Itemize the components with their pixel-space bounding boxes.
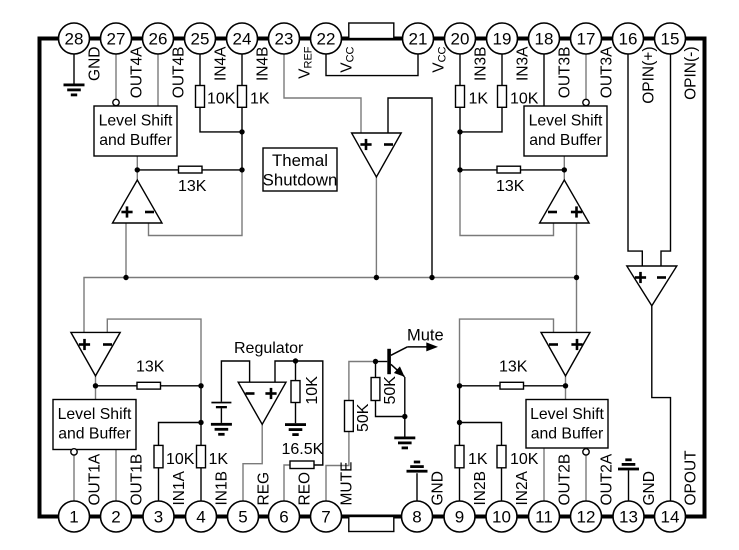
svg-text:27: 27 <box>107 30 126 49</box>
pin 25 circle <box>185 23 216 54</box>
svg-text:6: 6 <box>279 508 288 527</box>
svg-text:18: 18 <box>535 30 554 49</box>
wire R-10K to pin3 <box>158 468 160 501</box>
bubble pin17 OUT3A <box>583 99 589 105</box>
svg-text:19: 19 <box>493 30 512 49</box>
bubble pin12 OUT2A <box>583 449 589 455</box>
wire R-10K to pin10 <box>501 468 503 501</box>
svg-text:IN3A: IN3A <box>515 46 532 81</box>
ground regulator capacitor <box>211 423 232 426</box>
wire pin25 to R-10K <box>199 54 201 86</box>
svg-text:Shutdown: Shutdown <box>263 171 338 190</box>
level shift and buffer box U1 <box>53 400 136 450</box>
level shift and buffer box U3 <box>524 106 607 156</box>
pin 26 circle <box>143 23 174 54</box>
wire pin13 ground <box>628 470 630 501</box>
svg-text:IN3B: IN3B <box>473 47 490 81</box>
svg-text:10K: 10K <box>510 451 539 468</box>
resistor 10K (pin10 IN2A) <box>497 445 506 467</box>
op-amp U1 (channel 1) <box>71 332 120 376</box>
wire pin24 to R-1K <box>241 54 243 86</box>
svg-text:Level Shift: Level Shift <box>529 113 603 130</box>
svg-text:25: 25 <box>191 30 210 49</box>
wire node A4 to node B4 through 13K <box>137 169 242 171</box>
resistor 13K feedback U4 <box>179 166 203 173</box>
resistor 10K (pin3 IN1A) <box>154 445 163 467</box>
wire U7 output to pin14 OPOUT <box>652 306 671 501</box>
op-amp U2 (channel 2) <box>541 332 590 376</box>
svg-text:9: 9 <box>455 508 464 527</box>
wire node B1 down <box>200 386 202 446</box>
svg-text:13K: 13K <box>136 359 165 376</box>
svg-text:50K: 50K <box>382 376 399 405</box>
pin 16 circle <box>613 23 644 54</box>
mute arrow <box>407 346 427 348</box>
pin 10 circle <box>486 501 517 532</box>
wire node B3 to node A3 through 13K <box>460 169 564 171</box>
svg-text:OUT2A: OUT2A <box>599 453 616 505</box>
svg-text:28: 28 <box>65 30 84 49</box>
pin 24 circle <box>227 23 258 54</box>
resistor 16.5K regulator output <box>290 461 314 469</box>
bubble pin27 OUT4A <box>113 99 119 105</box>
wire U3 + input / U2 + input to VREF bus <box>576 223 578 332</box>
pin 3 circle <box>143 501 174 532</box>
svg-text:1K: 1K <box>250 91 270 108</box>
wire U4 + input to VREF bus <box>125 223 127 278</box>
wire Q1 emitter to ground <box>404 377 406 437</box>
svg-text:IN2B: IN2B <box>472 471 489 505</box>
wire U6 + input node <box>275 361 323 465</box>
pin 12 circle <box>571 501 602 532</box>
svg-text:IN1B: IN1B <box>214 471 231 505</box>
svg-text:22: 22 <box>317 30 336 49</box>
svg-text:OUT1A: OUT1A <box>87 453 104 505</box>
pin 7 circle <box>311 501 342 532</box>
wire Vcc pin22 to pin21 <box>326 54 418 76</box>
svg-text:24: 24 <box>233 30 252 49</box>
resistor 13K feedback U3 <box>497 166 521 173</box>
wire buffer1 bubble to pin1 <box>73 455 75 501</box>
junction dot junction regulator + node <box>293 358 298 363</box>
svg-text:Regulator: Regulator <box>234 340 304 357</box>
svg-text:REG: REG <box>256 472 273 506</box>
wire pin28 to ground <box>73 54 75 84</box>
wire junction to R-10K <box>159 423 202 446</box>
resistor 10K (pin19 IN3A) <box>498 86 507 108</box>
svg-text:21: 21 <box>409 30 428 49</box>
IC package outline <box>40 39 705 517</box>
svg-text:13K: 13K <box>178 178 207 195</box>
wire pin15 OPIN(-) to U7 <box>661 54 671 266</box>
junction dot bus junction U4+ <box>123 275 128 280</box>
wire buffer1 to pin2 <box>115 448 117 501</box>
pin 6 circle <box>269 501 300 532</box>
wire R-1K to pin4 <box>200 468 202 501</box>
svg-text:11: 11 <box>535 508 553 527</box>
package tab bottom <box>349 517 394 532</box>
resistor 10K (pin25 IN4A) <box>196 86 205 108</box>
svg-text:1K: 1K <box>469 91 489 108</box>
svg-text:IN1A: IN1A <box>171 470 188 505</box>
pin 18 circle <box>529 23 560 54</box>
pin 20 circle <box>445 23 476 54</box>
svg-text:17: 17 <box>577 30 596 49</box>
svg-text:10K: 10K <box>510 91 539 108</box>
wire feedback loop U4 <box>149 170 243 236</box>
transistor Q1 mute <box>387 349 391 374</box>
svg-text:7: 7 <box>321 508 330 527</box>
svg-text:and Buffer: and Buffer <box>529 132 602 149</box>
junction dot node B3 inverting input <box>457 167 462 172</box>
wire pin19 to R-10K <box>501 54 503 86</box>
svg-text:and Buffer: and Buffer <box>99 132 172 149</box>
svg-text:1K: 1K <box>209 451 229 468</box>
resistor 1K (pin9 IN2B) <box>455 445 464 467</box>
wire buffer3 output stub <box>563 156 565 180</box>
pin 21 circle <box>403 23 434 54</box>
junction dot bus junction U5 out <box>374 275 379 280</box>
wire node B2 down <box>459 386 461 446</box>
svg-text:10K: 10K <box>207 91 236 108</box>
wire U5 - feedback to bus <box>388 98 432 278</box>
pin 19 circle <box>487 23 518 54</box>
svg-text:13K: 13K <box>496 178 525 195</box>
svg-text:Themal: Themal <box>272 151 328 170</box>
wire node to R-10K and ground <box>295 361 297 423</box>
wire pin7 MUTE to Q1 base <box>326 362 376 502</box>
wire U5 output to bus <box>375 177 377 278</box>
bubble pin1 OUT1A <box>71 449 77 455</box>
wire VREF bus <box>84 278 577 333</box>
thermal shutdown box <box>263 148 337 191</box>
op-amp U6 regulator <box>238 382 286 424</box>
pin 22 circle <box>311 23 342 54</box>
wire node A1 to node B1 through 13K <box>96 385 202 387</box>
wire buffer2 bubble to pin12 <box>585 455 587 501</box>
svg-text:GND: GND <box>641 471 658 505</box>
svg-text:2: 2 <box>111 508 120 527</box>
ground mute emitter <box>394 437 415 440</box>
wire R-10K to junction <box>200 107 242 132</box>
junction dot node A1 output junction <box>93 383 98 388</box>
wire U1 output to buffer1 <box>95 376 97 400</box>
resistor 1K (pin4 IN1B) <box>197 445 206 467</box>
svg-text:4: 4 <box>196 508 205 527</box>
junction dot junction IN2 resistors <box>457 420 462 425</box>
resistor 13K feedback U1 <box>137 382 161 389</box>
svg-text:3: 3 <box>154 508 163 527</box>
junction dot node B2 inverting input <box>457 383 462 388</box>
svg-text:Level Shift: Level Shift <box>530 406 604 423</box>
junction dot node A4 output junction <box>135 167 140 172</box>
pin 11 circle <box>529 501 560 532</box>
svg-text:OUT3A: OUT3A <box>599 46 616 98</box>
pin 9 circle <box>444 501 475 532</box>
wire pin20 to R-1K <box>459 54 461 86</box>
resistor 1K (pin20 IN3B) <box>456 86 465 108</box>
ground pin28 GND <box>64 84 85 87</box>
pin 15 circle <box>655 23 686 54</box>
svg-text:OPIN(+): OPIN(+) <box>641 47 658 104</box>
svg-text:13: 13 <box>619 508 638 527</box>
svg-text:GND: GND <box>87 47 104 81</box>
capacitor regulator - input <box>211 402 231 404</box>
resistor 50K base-emitter <box>371 378 380 401</box>
ground pin13 GND (inverted) <box>625 458 631 461</box>
svg-text:OUT2B: OUT2B <box>557 454 574 506</box>
wire pin18 to buffer box <box>543 54 545 106</box>
wire U2 output to buffer2 <box>565 376 567 400</box>
pin 1 circle <box>59 501 90 532</box>
wire U2 - input step <box>460 319 554 386</box>
svg-text:GND: GND <box>430 471 447 505</box>
junction dot junction IN1 resistors <box>198 420 203 425</box>
pin 8 circle <box>402 501 433 532</box>
pin 27 circle <box>101 23 132 54</box>
junction dot junction IN4 resistors <box>239 129 244 134</box>
wire base node to R-50K-2 <box>376 362 405 417</box>
svg-text:26: 26 <box>149 30 168 49</box>
wire capacitor to ground <box>220 408 222 423</box>
svg-text:16: 16 <box>619 30 638 49</box>
svg-text:1: 1 <box>69 508 78 527</box>
package tab top <box>349 23 394 39</box>
resistor 13K feedback U2 <box>500 382 524 389</box>
resistor 10K regulator <box>291 381 300 403</box>
svg-text:OPIN(-): OPIN(-) <box>683 47 700 100</box>
svg-text:50K: 50K <box>355 403 372 432</box>
junction dot junction Q1 base <box>373 359 378 364</box>
level shift and buffer box U2 <box>526 400 608 449</box>
svg-text:Mute: Mute <box>407 327 444 345</box>
svg-text:10K: 10K <box>304 376 321 405</box>
svg-text:and Buffer: and Buffer <box>531 426 604 443</box>
svg-text:Level Shift: Level Shift <box>99 113 173 130</box>
wire buffer2 to pin11 <box>543 448 545 501</box>
svg-text:14: 14 <box>661 508 680 527</box>
pin 5 circle <box>228 501 259 532</box>
wire pin8 ground <box>416 473 418 501</box>
pin 23 circle <box>269 23 300 54</box>
svg-text:REO: REO <box>297 472 314 506</box>
pin 17 circle <box>571 23 602 54</box>
svg-text:and Buffer: and Buffer <box>58 426 131 443</box>
junction dot junction IN3 resistors <box>457 129 462 134</box>
wire R-16.5K to pin6 REO <box>284 465 290 501</box>
svg-text:IN2A: IN2A <box>514 470 531 505</box>
op-amp U5 VREF buffer <box>352 133 402 177</box>
wire Q1 base stub <box>376 361 388 363</box>
svg-text:1K: 1K <box>468 451 488 468</box>
pin 2 circle <box>101 501 132 532</box>
op-amp U4 (channel 4) <box>113 180 163 223</box>
svg-text:15: 15 <box>661 30 680 49</box>
junction dot bus junction right <box>574 275 579 280</box>
svg-text:MUTE: MUTE <box>339 462 356 506</box>
junction dot junction emitter ground <box>402 414 407 419</box>
svg-text:10: 10 <box>492 508 511 527</box>
op-amp U3 (channel 3) <box>540 180 590 223</box>
svg-text:Level Shift: Level Shift <box>58 406 132 423</box>
junction dot node A2 output junction <box>563 383 568 388</box>
wire R-1K to node IN4 <box>241 107 243 170</box>
wire U6 output to pin5 REG <box>243 424 262 501</box>
ground regulator 10K <box>285 423 306 426</box>
wire pin23 VREF to U5 + input <box>284 54 361 133</box>
level shift and buffer box U4 <box>94 106 177 156</box>
junction dot node B1 inverting input <box>198 383 203 388</box>
wire pin27 to buffer bubble <box>115 54 117 99</box>
wire R-1K to pin9 <box>459 468 461 501</box>
pin 13 circle <box>613 501 644 532</box>
wire U1 - input step <box>107 319 201 386</box>
svg-text:OUT4B: OUT4B <box>171 47 188 99</box>
junction dot bus junction U5 feedback <box>429 275 434 280</box>
wire pin16 OPIN(+) to U7 <box>628 54 642 266</box>
wire R-1K to node IN3 <box>459 107 461 170</box>
resistor 50K mute input <box>345 401 354 432</box>
svg-text:23: 23 <box>275 30 294 49</box>
svg-text:OUT1B: OUT1B <box>129 454 146 506</box>
wire U6 - input to capacitor <box>221 361 249 402</box>
ground pin8 GND (inverted) <box>414 461 420 464</box>
wire pin26 to buffer box <box>157 54 159 106</box>
wire feedback loop U3 <box>460 170 554 236</box>
wire node B2 to node A2 through 13K <box>460 385 566 387</box>
svg-text:8: 8 <box>412 508 421 527</box>
junction dot node A3 output junction <box>562 167 567 172</box>
svg-text:OUT3B: OUT3B <box>557 47 574 99</box>
pin 4 circle <box>186 501 217 532</box>
svg-text:10K: 10K <box>166 451 195 468</box>
svg-text:IN4A: IN4A <box>213 46 230 81</box>
wire buffer4 output stub <box>136 156 138 180</box>
op-amp U7 output amp <box>627 266 677 306</box>
svg-text:12: 12 <box>577 508 596 527</box>
svg-text:5: 5 <box>238 508 247 527</box>
junction dot node B4 inverting input <box>239 167 244 172</box>
svg-text:16.5K: 16.5K <box>282 441 324 458</box>
svg-text:IN4B: IN4B <box>255 47 272 81</box>
wire junction to R-10K <box>460 423 502 446</box>
svg-text:20: 20 <box>451 30 470 49</box>
wire pin17 to buffer bubble <box>585 54 587 99</box>
pin 14 circle <box>655 501 686 532</box>
pin 28 circle <box>59 23 90 54</box>
svg-text:OPOUT: OPOUT <box>683 450 700 506</box>
wire R-10K to junction <box>460 107 502 132</box>
svg-text:OUT4A: OUT4A <box>129 46 146 98</box>
svg-text:13K: 13K <box>499 359 528 376</box>
resistor 1K (pin24 IN4B) <box>238 86 247 108</box>
